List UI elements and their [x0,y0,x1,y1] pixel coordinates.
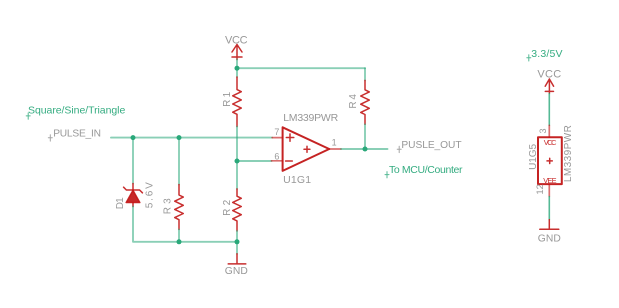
wire R4 bottom to output junction [364,124,366,149]
wire D1 anode to ground rail [133,207,237,242]
label Square/Sine/Triangle [26,104,125,119]
label 3.3/5V [527,48,563,61]
svg-text:7: 7 [274,127,279,137]
zener diode D1 [132,138,134,184]
ground symbol (main) [236,242,238,254]
svg-text:PUSLE_OUT: PUSLE_OUT [401,140,461,151]
svg-text:3.3/5V: 3.3/5V [531,48,562,60]
wire VCC to U1G5 pin 3 [548,94,550,126]
svg-text:R3: R3 [162,198,173,214]
label To MCU/Counter [385,164,463,178]
svg-text:3: 3 [538,128,548,133]
pin 1 stub (output) [329,148,341,150]
svg-text:R4: R4 [348,94,359,109]
svg-text:R2: R2 [222,199,233,215]
junction at divider midpoint [235,159,240,164]
junction R3 at ground rail [177,239,182,244]
resistor R3 [178,138,180,185]
svg-text:12: 12 [535,184,546,195]
pin 12 stub [548,184,550,196]
svg-text:U1G1: U1G1 [283,174,311,186]
power unit U1G5 body [538,137,562,184]
svg-text:LM339PWR: LM339PWR [563,125,574,182]
junction at ground rail [235,239,240,244]
svg-text:VCC: VCC [544,138,557,147]
svg-text:R1: R1 [222,91,233,106]
wire R2 bottom to ground rail [236,231,238,242]
wire VCC stub to junction [236,60,238,78]
resistor R2 [236,161,238,189]
svg-text:Square/Sine/Triangle: Square/Sine/Triangle [28,104,125,116]
op-amp center plus [304,146,310,152]
svg-text:PULSE_IN: PULSE_IN [53,128,101,139]
resistor R1 [233,77,242,127]
pin 6 stub [272,160,283,162]
junction at R3 top [177,135,182,140]
svg-text:1: 1 [332,138,337,148]
wire to pin 6 [237,160,272,162]
junction at D1 top [131,135,136,140]
resistor R4 [364,68,366,80]
wire pin 12 to ground [548,197,550,220]
svg-text:LM339PWR: LM339PWR [283,112,338,124]
wire VCC rail horizontal [237,67,365,69]
op-amp minus symbol (pin6) [286,160,293,162]
power flag VCC (main) [232,45,242,60]
pin 3 stub [548,125,550,137]
ground symbol (right) [540,220,559,230]
svg-text:VCC: VCC [225,34,248,46]
junction at output [363,147,368,152]
svg-text:GND: GND [225,266,248,277]
wire R3 bottom to ground rail [178,229,180,241]
svg-text:6: 6 [274,151,279,161]
op-amp plus symbol (pin7) [286,134,294,141]
svg-text:5.6V: 5.6V [145,182,156,208]
net label PUSLE_OUT [397,140,461,153]
wire R1 bottom to pin6 junction [236,127,238,162]
svg-text:GND: GND [538,233,561,244]
junction at VCC rail [235,66,240,71]
op-amp U1G1 LM339PWR triangle [283,127,330,171]
svg-text:D1: D1 [115,197,126,209]
wire PULSE_IN to op-amp pin 7 [111,137,272,139]
svg-text:VEE: VEE [543,176,556,185]
net label PULSE_IN [48,128,101,141]
pin 7 stub [272,137,282,139]
power flag VCC (right) [545,79,553,94]
wire output to label [341,148,388,150]
svg-text:To MCU/Counter: To MCU/Counter [389,164,463,176]
plus inside box [547,158,552,163]
svg-text:U1G5: U1G5 [528,143,539,169]
